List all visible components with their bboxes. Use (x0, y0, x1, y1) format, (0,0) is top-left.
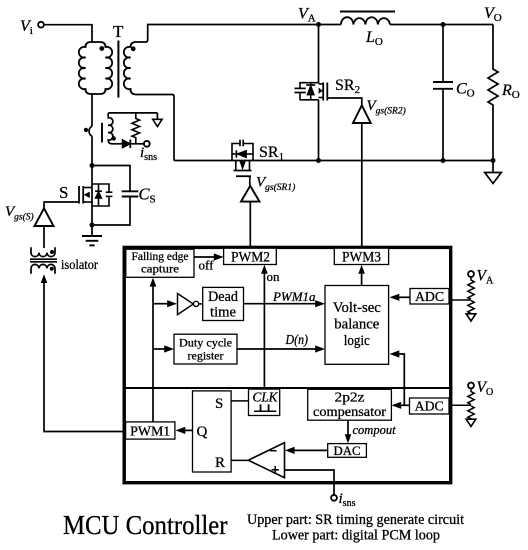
wire inductor to VO (390, 24, 493, 26)
net off label (199, 258, 215, 273)
caption upper part (247, 512, 464, 528)
svg-text:PWM1: PWM1 (130, 424, 170, 439)
isolator primary phase dot (50, 250, 54, 254)
transistor S body-diode and capacitance loop (92, 184, 112, 206)
svg-text:Dead: Dead (208, 289, 238, 305)
inverter gate (178, 294, 203, 315)
wire SR2 gate to driver (327, 98, 362, 105)
isolator core lines (30, 259, 57, 262)
transformer T primary winding (79, 42, 112, 94)
wire comparator output to flip-flop R (231, 459, 248, 461)
sense divider VA terminal (468, 271, 474, 277)
transistor S label (59, 183, 68, 202)
svg-text:MCU Controller: MCU Controller (63, 509, 228, 540)
current transformer primary phase dot (84, 128, 88, 132)
wire branch to duty cycle register with arrowhead (153, 345, 174, 352)
MCU controller box (124, 247, 451, 482)
driver Vgs(S) triangle (35, 208, 54, 226)
wire VA rail to inductor (319, 24, 342, 26)
wire Vi to transformer primary (44, 25, 92, 42)
terminal isns bottom (331, 495, 337, 501)
node RO bottom junction dot (491, 158, 496, 163)
inductor LO label (365, 29, 383, 48)
wire capture to PWM2 with arrowhead (194, 253, 224, 260)
transformer T label (113, 22, 124, 41)
svg-text:register: register (188, 351, 224, 363)
block 2p2z compensator (308, 389, 392, 420)
wire SR2 source down to rail (318, 100, 320, 161)
svg-text:Lower part: digital PCM loop: Lower part: digital PCM loop (272, 528, 440, 544)
wire PWM1 to isolator with arrow (41, 274, 126, 431)
transistor SR1 label (259, 144, 284, 163)
wire flip-flop S to CLK (231, 400, 248, 402)
transistor SR2 body-diode and capacitance loop (295, 83, 319, 100)
node snubber top junction dot (90, 163, 95, 168)
wire on signal CLK to PWM2 with arrowhead (261, 265, 268, 389)
current transformer core (101, 123, 103, 143)
transformer T primary phase dot (99, 46, 104, 51)
svg-text:compout: compout (353, 423, 397, 437)
block falling edge capture (126, 249, 194, 277)
svg-text:R: R (215, 455, 225, 471)
driver Vgs(S) label (5, 204, 34, 223)
capacitor CS label (139, 185, 156, 206)
sense divider VO label (477, 379, 494, 398)
block dead time (203, 287, 244, 320)
svg-text:PWM1a: PWM1a (272, 289, 316, 304)
transistor SR2 channel and gate (319, 83, 328, 101)
wire SR rail (174, 160, 493, 162)
isolator secondary winding (31, 264, 55, 273)
wire ADC to volt-sec with arrowhead (390, 294, 411, 301)
transistor SR1 body-diode and capacitance loop (232, 140, 253, 161)
caption lower part (272, 528, 440, 544)
node CO bottom junction dot (441, 158, 446, 163)
resistor CT burden (132, 113, 140, 144)
svg-text:compensator: compensator (313, 404, 387, 419)
isolator secondary phase dot (50, 267, 54, 271)
driver Vgs(SR1) triangle (241, 186, 260, 202)
wire volt-sec to PWM3 with arrowhead (358, 265, 365, 286)
wire flip-flop Q to PWM1 with arrowhead (176, 427, 193, 434)
block PWM2 (224, 248, 277, 265)
net on label (267, 269, 281, 284)
block ADC upper (410, 289, 449, 305)
block CLK (249, 389, 280, 415)
wire S driver to isolator (43, 226, 45, 248)
wire SR1 gate to driver (249, 176, 251, 185)
svg-text:ADC: ADC (415, 289, 444, 304)
sense divider VA label (477, 268, 494, 287)
node VA junction dot (316, 22, 321, 27)
resistor RO (488, 25, 498, 161)
node isns bottom label (339, 491, 356, 509)
node VA label (298, 6, 316, 25)
capacitor CO label (456, 81, 475, 100)
isolator primary winding (31, 247, 55, 256)
block SR flip-flop (193, 391, 232, 472)
wire VA down to SR2 drain (318, 25, 320, 84)
net compout label (353, 423, 397, 437)
wire PWM1a to volt-sec with arrowhead (244, 300, 326, 307)
svg-text:T: T (113, 22, 124, 41)
wire compout 2p2z to DAC with arrowhead (345, 420, 352, 443)
MCU internal divider line (123, 387, 453, 389)
wire secondary top to VA rail (136, 25, 319, 43)
transistor SR2 label (335, 77, 360, 96)
svg-text:PWM2: PWM2 (231, 250, 270, 266)
svg-text:2p2z: 2p2z (335, 390, 365, 405)
comparator (248, 443, 284, 478)
wire isns to comparator plus input (285, 470, 335, 495)
driver Vgs(SR1) label (256, 175, 295, 194)
sense divider VO terminal (468, 383, 474, 389)
resistor VA divider upper (468, 277, 474, 299)
svg-text:Q: Q (197, 424, 208, 440)
svg-text:D(n): D(n) (285, 332, 309, 347)
svg-text:S: S (59, 183, 68, 202)
wire VO tap to ADC (449, 404, 471, 406)
node CO top junction dot (441, 22, 446, 27)
diode CT output (112, 140, 144, 149)
capacitor CS branch (92, 166, 138, 226)
capacitor CO (433, 25, 453, 161)
svg-text:capture: capture (141, 264, 179, 276)
wire SR2 driver to PWM3 (361, 123, 363, 248)
svg-text:logic: logic (344, 333, 370, 349)
isolator label (61, 258, 98, 273)
svg-text:isolator: isolator (61, 258, 98, 273)
ground VO divider arrow (466, 419, 476, 426)
MCU Controller caption (63, 509, 228, 540)
wire CT to snubber junction (91, 136, 93, 225)
inductor LO core bar (340, 11, 395, 13)
wire primary bottom to CT (91, 94, 93, 126)
transistor SR1 channel and gate (234, 161, 252, 176)
wire CT secondary top rail (108, 112, 157, 114)
driver Vgs(SR2) triangle (353, 105, 371, 123)
svg-text:Volt-sec: Volt-sec (333, 300, 381, 316)
wire S gate to driver (44, 202, 79, 208)
block DAC (328, 443, 367, 458)
svg-text:on: on (267, 269, 281, 284)
svg-text:Falling edge: Falling edge (132, 251, 189, 263)
node SR2 rail junction dot (316, 158, 321, 163)
resistor RO label (501, 82, 520, 101)
block PWM1 (126, 422, 175, 439)
inductor LO (341, 17, 390, 24)
wire ADC lower branch to volt-sec with arrowhead (390, 350, 405, 405)
current transformer secondary phase dot (112, 136, 116, 140)
svg-text:DAC: DAC (334, 443, 361, 458)
svg-text:off: off (199, 258, 215, 273)
net PWM1a label (272, 289, 316, 304)
block volt-sec balance logic (325, 286, 389, 365)
svg-text:ADC: ADC (415, 399, 444, 414)
transformer T secondary winding (124, 42, 136, 95)
block duty cycle register (174, 334, 237, 364)
node snubber bottom junction dot (90, 223, 95, 228)
resistor VO divider lower (468, 406, 474, 419)
node VO label (484, 5, 502, 24)
svg-text:PWM3: PWM3 (342, 250, 381, 266)
transformer T secondary phase dot (131, 46, 136, 51)
svg-text:Duty cycle: Duty cycle (179, 338, 232, 350)
svg-text:balance: balance (334, 317, 379, 333)
terminal isns (144, 141, 150, 147)
net D(n) label (285, 332, 309, 347)
current transformer secondary winding (108, 113, 113, 144)
resistor VO divider upper (468, 389, 474, 405)
node Vi label (20, 18, 33, 37)
wire VA tap to ADC (449, 299, 471, 301)
wire DAC to comparator with arrowhead (285, 447, 328, 454)
wire PWM1 feedback up to capture with arrowhead (150, 278, 157, 422)
transistor S channel and gate (79, 186, 92, 204)
svg-text:CLK: CLK (253, 390, 279, 405)
ground CT common arrow (153, 113, 162, 127)
driver Vgs(SR2) label (367, 98, 406, 117)
transformer T core (117, 41, 119, 98)
node isns label (140, 145, 157, 163)
svg-text:Upper part: SR timing generate: Upper part: SR timing generate circuit (247, 512, 464, 528)
ground S source (82, 225, 102, 245)
terminal Vi (38, 22, 44, 28)
svg-text:time: time (210, 305, 236, 321)
wire branch to inverter with arrowhead (153, 300, 177, 307)
current transformer primary loop (89, 126, 92, 136)
wire ADC to 2p2z with arrowhead (391, 402, 409, 409)
wire SR1 driver to PWM2 (249, 202, 251, 248)
ground output (485, 161, 502, 184)
block ADC lower (410, 398, 450, 414)
svg-text:S: S (215, 396, 223, 412)
block PWM3 (334, 248, 388, 265)
wire secondary bottom to SR rail (136, 95, 174, 161)
ground VA divider arrow (466, 314, 476, 321)
wire D(n) to volt-sec with arrowhead (237, 345, 325, 352)
resistor VA divider lower (468, 301, 474, 314)
